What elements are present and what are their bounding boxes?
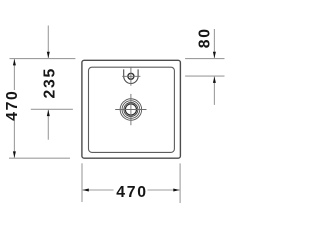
left 470 arrow down [13,151,16,157]
basin inner rim [89,67,175,152]
bottom-left reference line [9,157,70,159]
80 dimension upper tail [213,29,215,59]
faucet platform U outline [124,69,138,83]
drain circle outer [120,99,142,121]
top reference line right segment [185,58,224,60]
svg-text:470: 470 [4,89,21,120]
faucet hole [128,73,134,79]
left 470 arrow up [13,59,16,65]
drain crosshair [115,94,146,125]
svg-text:470: 470 [116,184,147,201]
bottom 470 arrow right [173,189,179,192]
bottom 470 extension line right [179,163,181,203]
bottom 470 arrow left [83,189,89,192]
faucet level reference line right [185,75,224,77]
svg-text:235: 235 [42,67,59,98]
235 dimension lower tail [47,109,49,139]
left 470 dimension line upper segment [13,59,15,90]
svg-text:80: 80 [197,27,214,48]
bottom 470 dimension line left segment [82,189,114,191]
80 arrow up [213,77,216,83]
bottom 470 dimension line right segment [148,189,181,191]
drain ring inner [125,104,136,115]
235 arrow up [47,110,50,116]
faucet crosshair [122,67,140,85]
basin outer outline [82,60,180,158]
235 dimension upper tail [47,26,49,59]
bottom 470 extension line left [81,163,83,202]
top reference line left segment [10,58,76,60]
80 arrow down [213,52,216,58]
left 470 dimension line lower segment [13,121,15,159]
drain ring outer [124,103,138,117]
drain circle second [122,101,140,119]
80 dimension lower tail [213,76,215,105]
235 arrow down [47,52,50,58]
drain level reference line left [31,108,73,110]
